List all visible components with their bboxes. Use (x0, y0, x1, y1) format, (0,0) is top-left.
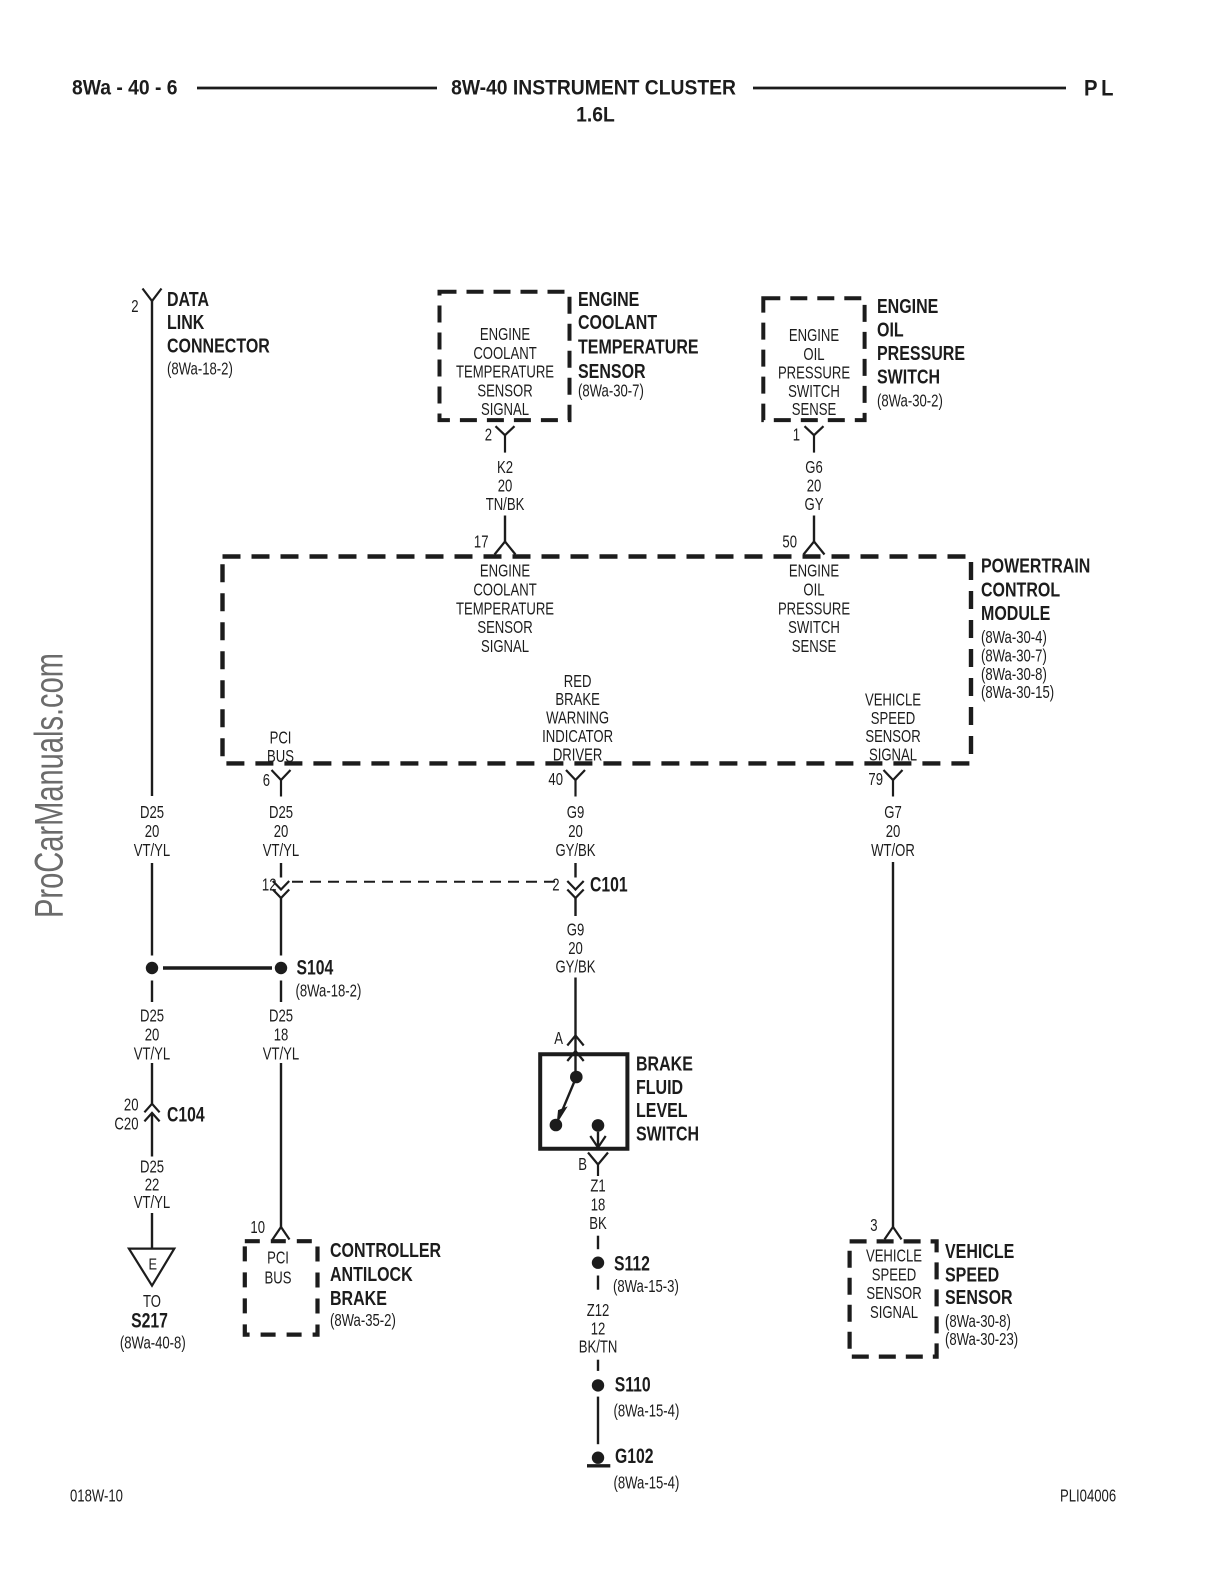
BFLS switch common terminal (570, 1071, 583, 1084)
svg-text:20: 20 (498, 477, 513, 496)
svg-text:20: 20 (886, 822, 901, 841)
svg-text:C20: C20 (114, 1115, 138, 1134)
svg-text:SENSE: SENSE (792, 637, 836, 656)
svg-text:COOLANT: COOLANT (473, 344, 537, 363)
svg-text:GY: GY (805, 495, 824, 514)
svg-text:3: 3 (870, 1216, 877, 1235)
connector C101 dashed line (292, 881, 562, 883)
svg-text:BRAKE: BRAKE (555, 690, 599, 709)
svg-text:GY/BK: GY/BK (555, 841, 596, 860)
svg-text:VT/YL: VT/YL (134, 841, 171, 860)
svg-text:PRESSURE: PRESSURE (877, 342, 965, 364)
svg-text:B: B (578, 1155, 587, 1174)
svg-text:(8Wa-35-2): (8Wa-35-2) (330, 1311, 396, 1330)
svg-text:VEHICLE: VEHICLE (865, 691, 921, 710)
wire D25 from DLC (151, 301, 153, 796)
svg-text:SPEED: SPEED (871, 709, 915, 728)
splice S110 node (592, 1379, 604, 1391)
svg-text:CONTROL: CONTROL (981, 579, 1060, 601)
svg-text:(8Wa-30-2): (8Wa-30-2) (877, 392, 943, 411)
wire Z12 segment 2 (597, 1360, 599, 1371)
engine oil pressure switch box (763, 298, 864, 420)
svg-text:SENSOR: SENSOR (477, 618, 532, 637)
svg-text:018W-10: 018W-10 (70, 1487, 123, 1506)
svg-text:COOLANT: COOLANT (578, 312, 657, 334)
connector C101 pin 2 symbol (567, 881, 583, 890)
svg-text:DRIVER: DRIVER (553, 746, 603, 765)
svg-text:20: 20 (145, 1026, 160, 1045)
wire D25 to off-page E (151, 1213, 153, 1249)
svg-text:40: 40 (548, 770, 563, 789)
svg-text:K2: K2 (497, 458, 513, 477)
svg-text:BRAKE: BRAKE (636, 1053, 693, 1075)
svg-text:20: 20 (274, 822, 289, 841)
splice S104 bus wire (163, 966, 272, 970)
svg-text:(8Wa-30-8): (8Wa-30-8) (945, 1312, 1011, 1331)
svg-text:20: 20 (124, 1096, 139, 1115)
ECT pin 2 connector (496, 426, 515, 435)
svg-text:SPEED: SPEED (945, 1264, 999, 1286)
svg-text:CONTROLLER: CONTROLLER (330, 1240, 441, 1262)
svg-text:50: 50 (782, 533, 797, 552)
wire Z12 segment (597, 1276, 599, 1290)
wire G9 to brake fluid level switch (574, 978, 576, 1077)
svg-text:SWITCH: SWITCH (788, 382, 840, 401)
svg-text:20: 20 (145, 822, 160, 841)
svg-text:WARNING: WARNING (546, 709, 609, 728)
BFLS pin B connector (588, 1153, 608, 1165)
wire D25 below C104 (151, 1114, 153, 1157)
svg-text:VT/YL: VT/YL (134, 1193, 171, 1212)
svg-text:(8Wa-18-2): (8Wa-18-2) (296, 982, 362, 1001)
svg-text:SWITCH: SWITCH (877, 366, 940, 388)
connector DLC pin 2 symbol (143, 289, 162, 302)
svg-text:D25: D25 (269, 1007, 293, 1026)
svg-text:8W-40 INSTRUMENT CLUSTER: 8W-40 INSTRUMENT CLUSTER (451, 77, 736, 100)
svg-text:COOLANT: COOLANT (473, 581, 537, 600)
svg-text:17: 17 (474, 533, 489, 552)
svg-text:LINK: LINK (167, 312, 204, 334)
VSS pin 3 connector (885, 1227, 902, 1240)
svg-text:SIGNAL: SIGNAL (481, 637, 529, 656)
wire K2 to PCM (504, 516, 506, 542)
wire G7 to VSS (892, 862, 894, 1227)
svg-text:RED: RED (564, 672, 592, 691)
svg-text:20: 20 (568, 822, 583, 841)
svg-text:D25: D25 (140, 803, 164, 822)
svg-text:VT/YL: VT/YL (263, 1045, 300, 1064)
svg-text:ENGINE: ENGINE (877, 295, 938, 317)
svg-text:BK/TN: BK/TN (579, 1338, 618, 1357)
svg-text:18: 18 (591, 1196, 606, 1215)
header rule left (197, 87, 437, 90)
svg-text:S110: S110 (615, 1372, 651, 1396)
svg-text:C104: C104 (167, 1102, 205, 1126)
svg-text:SIGNAL: SIGNAL (481, 400, 529, 419)
svg-text:Z1: Z1 (590, 1177, 605, 1196)
svg-text:G9: G9 (567, 921, 585, 940)
engine coolant temperature sensor box (440, 292, 570, 420)
svg-text:(8Wa-30-4): (8Wa-30-4) (981, 628, 1047, 647)
controller antilock brake box (245, 1241, 318, 1334)
svg-text:S104: S104 (297, 955, 334, 979)
svg-text:E: E (149, 1256, 158, 1274)
PCM pin 17 connector (495, 542, 516, 555)
svg-text:PCI: PCI (267, 1249, 289, 1268)
svg-text:PL: PL (1084, 77, 1117, 101)
BFLS switch arm with arrow (562, 1077, 576, 1110)
wire Z12 to ground (597, 1397, 599, 1445)
svg-text:ENGINE: ENGINE (789, 562, 839, 581)
off-page connector E triangle (129, 1249, 174, 1286)
svg-text:(8Wa-15-4): (8Wa-15-4) (614, 1474, 680, 1493)
svg-text:2: 2 (131, 297, 138, 316)
svg-text:INDICATOR: INDICATOR (542, 727, 613, 746)
svg-text:10: 10 (250, 1218, 265, 1237)
BFLS switch contact left (550, 1119, 563, 1132)
connector C101 pin 12 symbol (273, 881, 289, 890)
svg-text:(8Wa-30-15): (8Wa-30-15) (981, 683, 1054, 702)
svg-text:ANTILOCK: ANTILOCK (330, 1263, 413, 1285)
EOP pin 1 connector (805, 426, 824, 435)
svg-text:SENSOR: SENSOR (866, 1284, 921, 1303)
brake fluid level switch box (540, 1054, 627, 1149)
splice S104 node right (275, 962, 287, 974)
wire G9 segment (574, 898, 576, 916)
svg-text:79: 79 (868, 770, 883, 789)
svg-text:VT/YL: VT/YL (134, 1045, 171, 1064)
svg-text:PLI04006: PLI04006 (1060, 1487, 1116, 1506)
svg-text:TN/BK: TN/BK (486, 495, 525, 514)
svg-text:S217: S217 (131, 1308, 168, 1332)
PCM pin 50 connector (804, 542, 825, 555)
svg-text:SENSE: SENSE (792, 400, 836, 419)
svg-text:22: 22 (145, 1176, 160, 1195)
svg-text:CONNECTOR: CONNECTOR (167, 335, 270, 357)
svg-text:SENSOR: SENSOR (477, 382, 532, 401)
svg-text:D25: D25 (140, 1158, 164, 1177)
svg-text:VEHICLE: VEHICLE (945, 1240, 1014, 1262)
svg-text:SWITCH: SWITCH (636, 1123, 699, 1145)
svg-text:BUS: BUS (267, 747, 294, 766)
svg-text:POWERTRAIN: POWERTRAIN (981, 555, 1090, 577)
svg-text:MODULE: MODULE (981, 602, 1050, 624)
svg-text:2: 2 (552, 876, 559, 895)
svg-text:C101: C101 (590, 872, 628, 896)
PCM pin 6 connector (272, 770, 291, 780)
svg-text:FLUID: FLUID (636, 1076, 683, 1098)
svg-text:OIL: OIL (803, 581, 824, 600)
svg-text:G102: G102 (615, 1444, 654, 1468)
wire Z1 segment (597, 1236, 599, 1250)
svg-text:S112: S112 (614, 1251, 650, 1275)
svg-text:TEMPERATURE: TEMPERATURE (456, 600, 554, 619)
wire D25 to C104 (151, 1063, 153, 1104)
svg-text:Z12: Z12 (587, 1301, 610, 1320)
connector C104 symbol (144, 1104, 159, 1113)
ground G102 node (592, 1452, 604, 1464)
svg-text:GY/BK: GY/BK (555, 958, 596, 977)
svg-text:VEHICLE: VEHICLE (866, 1247, 922, 1266)
powertrain control module box (223, 557, 972, 764)
svg-text:BUS: BUS (265, 1269, 292, 1288)
svg-text:TEMPERATURE: TEMPERATURE (578, 336, 699, 358)
svg-text:SPEED: SPEED (872, 1266, 916, 1285)
PCM pin 40 connector (566, 770, 585, 780)
wire D25 below S104 right (280, 981, 282, 1003)
svg-text:G9: G9 (567, 803, 585, 822)
wire G9 to C101 (574, 863, 576, 878)
svg-text:(8Wa-18-2): (8Wa-18-2) (167, 360, 233, 379)
wire D25 to S104 (151, 863, 153, 956)
svg-text:PRESSURE: PRESSURE (778, 364, 850, 383)
vehicle speed sensor box (850, 1241, 937, 1356)
svg-text:A: A (554, 1029, 563, 1048)
BFLS pin A connector (567, 1036, 583, 1046)
svg-text:SWITCH: SWITCH (788, 618, 840, 637)
svg-text:WT/OR: WT/OR (871, 841, 915, 860)
CAB pin 10 connector (273, 1227, 290, 1240)
svg-text:18: 18 (274, 1026, 289, 1045)
svg-text:VT/YL: VT/YL (263, 841, 300, 860)
svg-text:SENSOR: SENSOR (578, 361, 646, 383)
svg-text:BRAKE: BRAKE (330, 1287, 387, 1309)
svg-text:BK: BK (589, 1214, 607, 1233)
svg-text:OIL: OIL (877, 319, 904, 341)
svg-text:ENGINE: ENGINE (480, 562, 530, 581)
svg-text:(8Wa-30-7): (8Wa-30-7) (578, 382, 644, 401)
splice S104 node left (146, 962, 158, 974)
svg-text:1.6L: 1.6L (576, 104, 615, 127)
wire G6 to PCM (813, 516, 815, 542)
svg-text:OIL: OIL (803, 345, 824, 364)
svg-text:ProCarManuals.com: ProCarManuals.com (27, 653, 72, 918)
svg-text:20: 20 (807, 477, 822, 496)
svg-text:LEVEL: LEVEL (636, 1099, 688, 1121)
svg-text:PRESSURE: PRESSURE (778, 600, 850, 619)
svg-text:D25: D25 (140, 1007, 164, 1026)
svg-text:ENGINE: ENGINE (789, 326, 839, 345)
svg-text:SENSOR: SENSOR (945, 1286, 1013, 1308)
svg-text:ENGINE: ENGINE (480, 325, 530, 344)
BFLS switch contact B terminal (592, 1119, 605, 1132)
svg-text:TEMPERATURE: TEMPERATURE (456, 363, 554, 382)
wire D25 below S104 left (151, 981, 153, 1003)
svg-text:SIGNAL: SIGNAL (869, 746, 917, 765)
svg-text:2: 2 (485, 426, 492, 445)
wire D25 col2 to C101 (280, 863, 282, 878)
svg-text:ENGINE: ENGINE (578, 288, 639, 310)
svg-text:(8Wa-30-8): (8Wa-30-8) (981, 665, 1047, 684)
BFLS terminal B arrow (597, 1132, 599, 1148)
svg-text:(8Wa-30-7): (8Wa-30-7) (981, 647, 1047, 666)
wire D25 to CAB (280, 1063, 282, 1227)
svg-text:(8Wa-15-4): (8Wa-15-4) (614, 1402, 680, 1421)
svg-text:(8Wa-40-8): (8Wa-40-8) (120, 1334, 186, 1353)
svg-text:G6: G6 (805, 458, 823, 477)
svg-text:PCI: PCI (270, 729, 292, 748)
splice S112 node (592, 1257, 604, 1269)
svg-text:G7: G7 (884, 803, 902, 822)
svg-text:D25: D25 (269, 803, 293, 822)
svg-text:(8Wa-30-23): (8Wa-30-23) (945, 1330, 1018, 1349)
svg-text:8Wa - 40 - 6: 8Wa - 40 - 6 (72, 77, 177, 100)
svg-text:12: 12 (591, 1320, 606, 1339)
svg-text:SIGNAL: SIGNAL (870, 1303, 918, 1322)
svg-text:6: 6 (263, 771, 270, 790)
svg-text:(8Wa-15-3): (8Wa-15-3) (613, 1277, 679, 1296)
PCM pin 79 connector (884, 770, 903, 780)
svg-text:20: 20 (568, 939, 583, 958)
header rule right (753, 87, 1066, 90)
svg-text:SENSOR: SENSOR (865, 727, 920, 746)
svg-text:DATA: DATA (167, 288, 209, 310)
svg-text:1: 1 (793, 426, 800, 445)
